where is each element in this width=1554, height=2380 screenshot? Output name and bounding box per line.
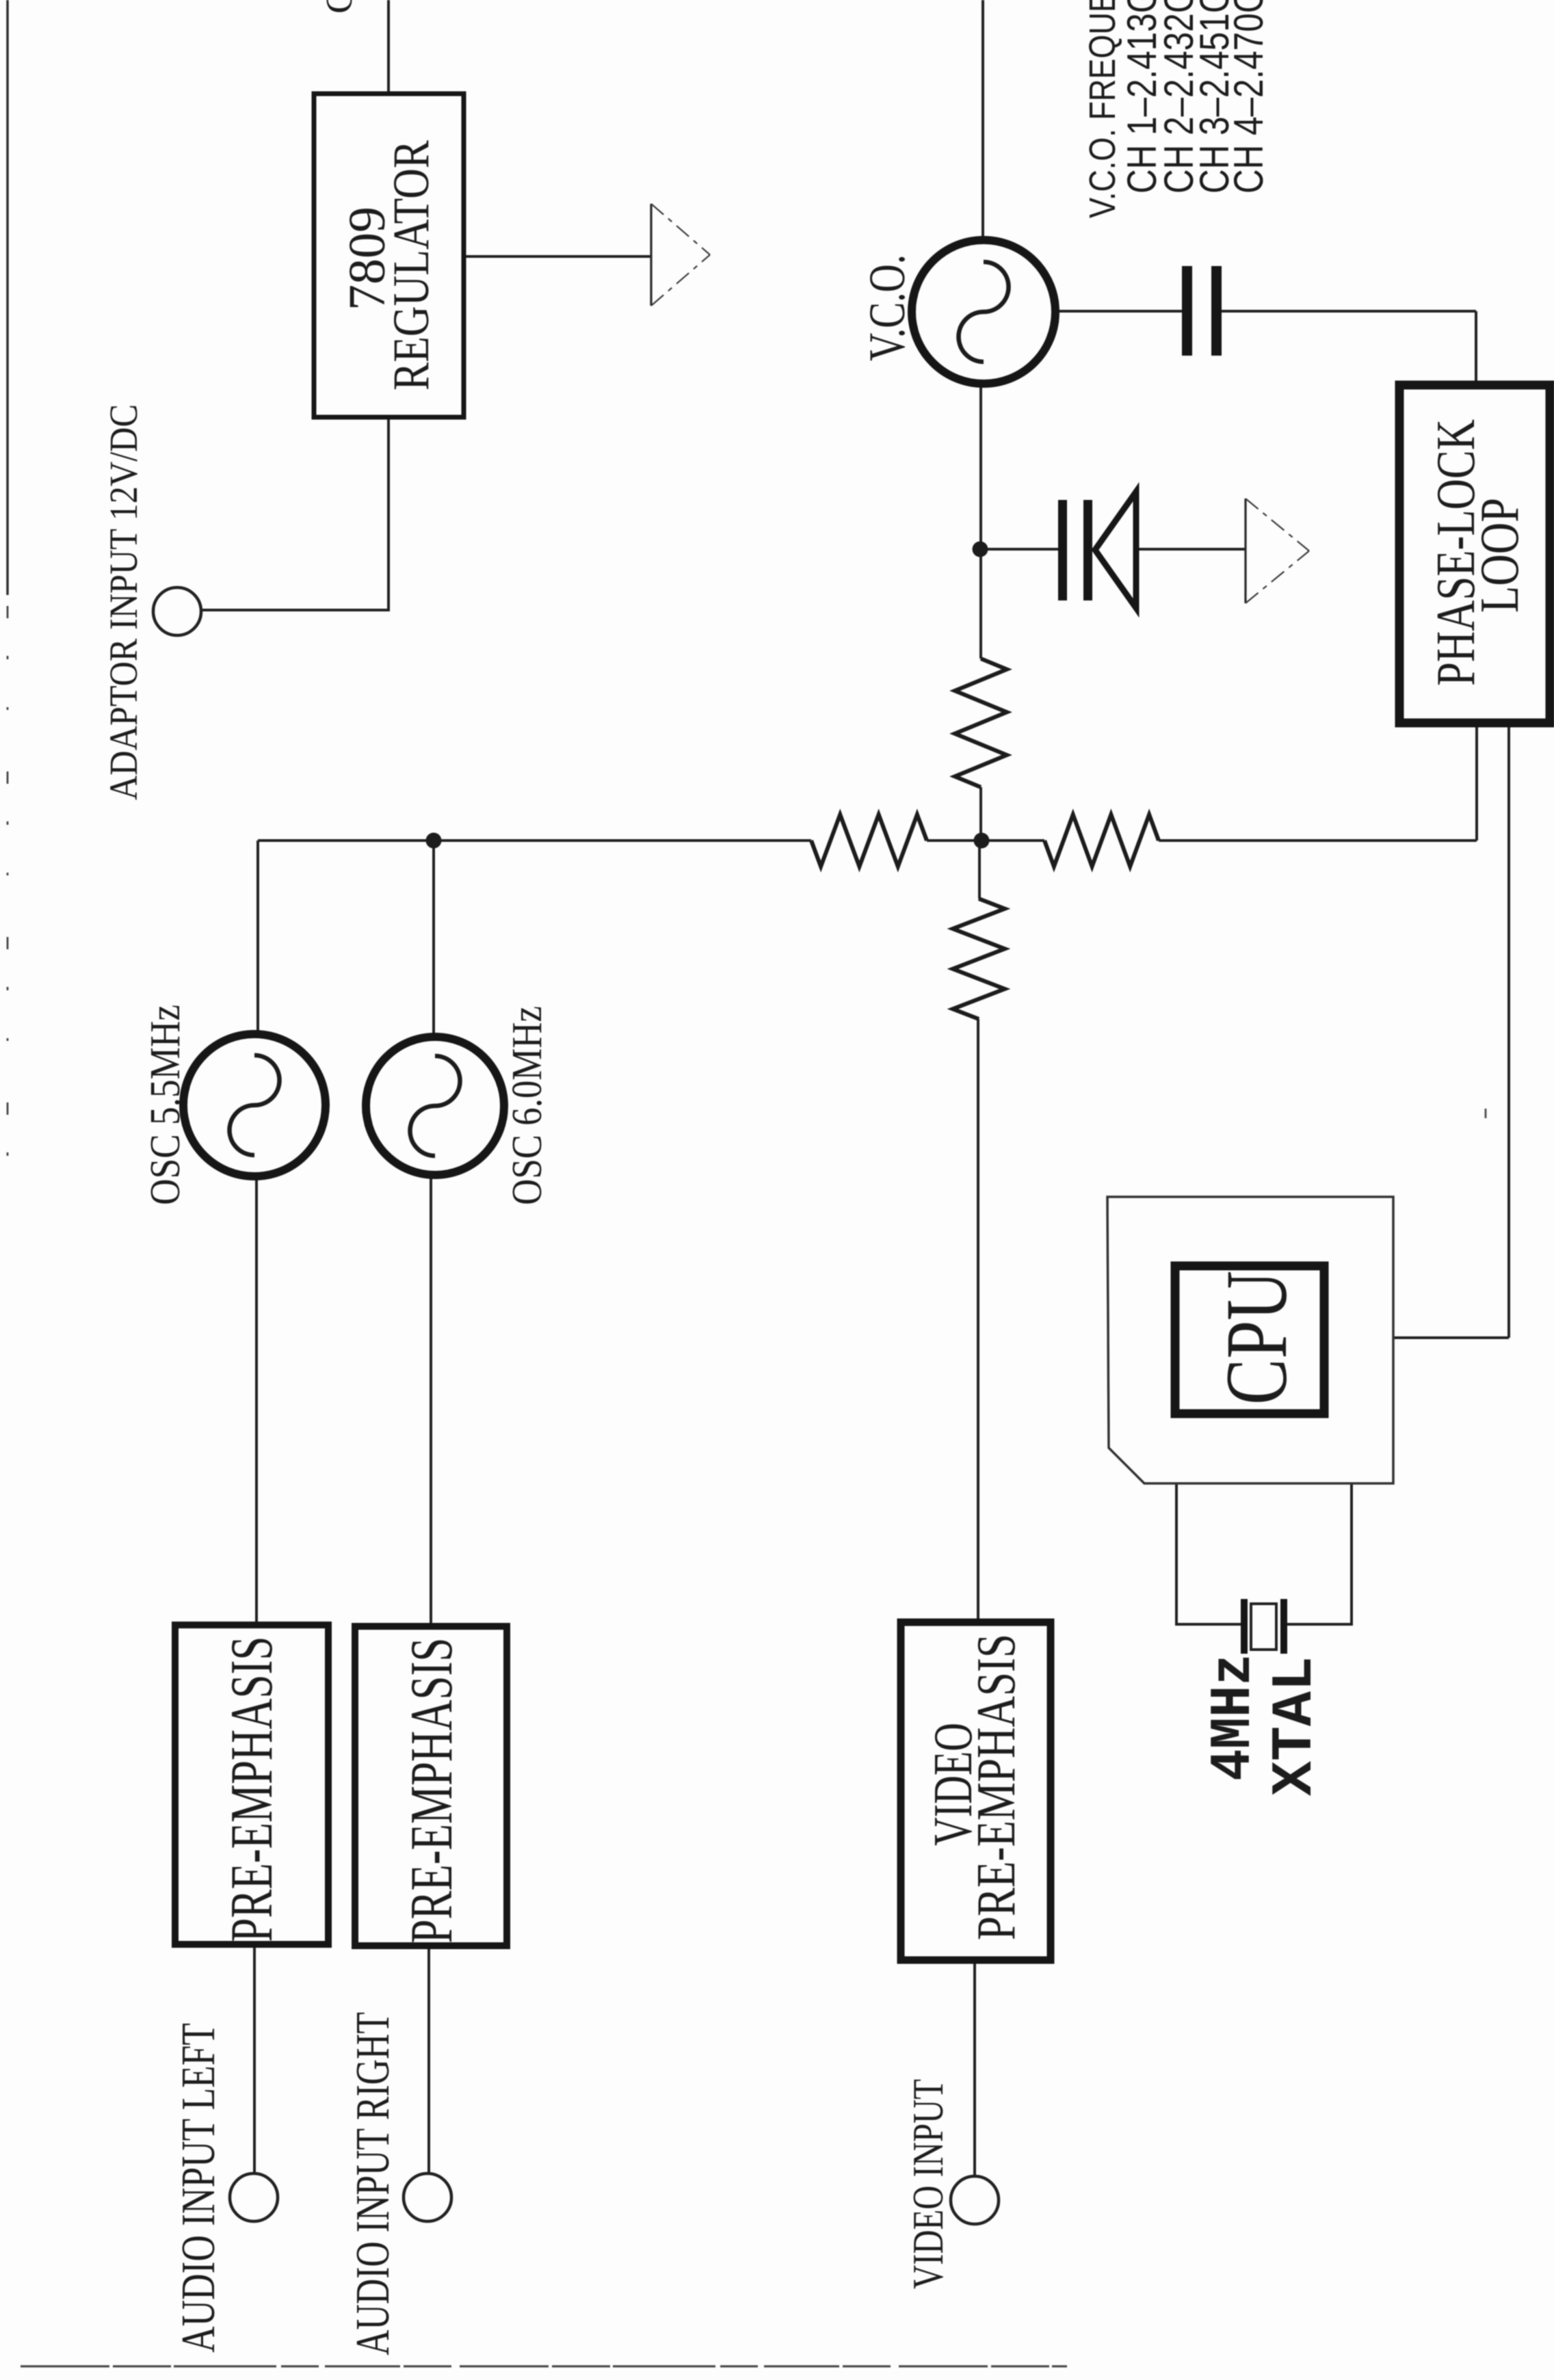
svg-text:PRE-EMPHASIS: PRE-EMPHASIS xyxy=(399,1638,465,1944)
svg-text:VIDEO INPUT: VIDEO INPUT xyxy=(904,2079,952,2289)
svg-text:AUDIO INPUT RIGHT: AUDIO INPUT RIGHT xyxy=(347,2012,399,2355)
svg-text:V.C.O. FREQUENCY: V.C.O. FREQUENCY xyxy=(1082,0,1123,218)
svg-text:CPU: CPU xyxy=(1208,1271,1305,1405)
svg-text:REGULATOR: REGULATOR xyxy=(383,140,440,391)
svg-text:V.C.O.: V.C.O. xyxy=(859,254,916,361)
svg-text:OSC 6.0MHz: OSC 6.0MHz xyxy=(504,1006,551,1205)
svg-text:AUDIO INPUT LEFT: AUDIO INPUT LEFT xyxy=(172,2023,225,2353)
svg-text:PRE-EMPHASIS: PRE-EMPHASIS xyxy=(219,1637,285,1942)
svg-text:4MHz: 4MHz xyxy=(1202,1654,1267,1781)
svg-text:OSC 5.5MHz: OSC 5.5MHz xyxy=(142,1005,189,1205)
svg-text:C: C xyxy=(318,0,360,14)
svg-text:CH 4–2.470GHZ: CH 4–2.470GHZ xyxy=(1226,0,1272,194)
svg-text:PRE-EMPHASIS: PRE-EMPHASIS xyxy=(966,1634,1027,1940)
svg-text:XTAL: XTAL xyxy=(1263,1656,1328,1796)
svg-text:ADAPTOR INPUT 12V/DC: ADAPTOR INPUT 12V/DC xyxy=(101,404,146,800)
svg-text:LOOP: LOOP xyxy=(1470,498,1530,613)
